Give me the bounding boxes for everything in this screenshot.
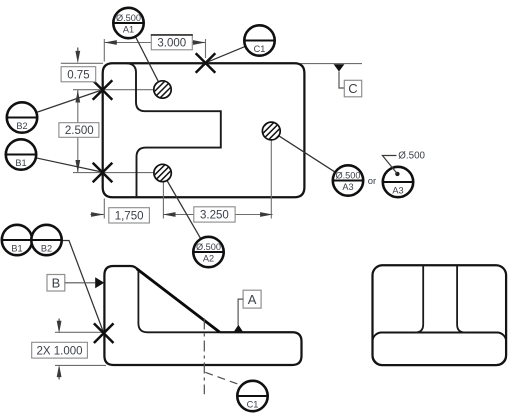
dimension box 1,750: [109, 208, 150, 223]
A3 alternate leader: [382, 156, 397, 174]
top view inner profile (step/slot): [127, 63, 221, 197]
datum A triangle: [234, 325, 243, 332]
top view outline: [103, 63, 305, 197]
svg-text:3.250: 3.250: [200, 210, 229, 222]
balloon B2 bottom: [31, 225, 61, 255]
balloon B1 bottom: [2, 225, 32, 255]
balloon A3 (with size inside): [333, 165, 363, 195]
leader C1 balloon to X3: [208, 46, 246, 62]
3.000 arrow right: [193, 40, 206, 45]
datum B stem: [65, 282, 95, 284]
svg-text:Ø.500: Ø.500: [398, 151, 425, 162]
1,750 arrow (outside, points right): [91, 214, 104, 216]
target line row 2 (through X2 and A2 area): [73, 172, 155, 174]
svg-text:2X 1.000: 2X 1.000: [36, 346, 82, 358]
front view outline: [104, 266, 301, 365]
2.500 dimension line: [77, 90, 79, 173]
balloon A3 alternate (size outside with leader): [383, 167, 413, 197]
leader B1 balloon to X2: [36, 158, 100, 172]
balloon B2 top: [7, 102, 37, 132]
svg-text:C: C: [348, 81, 357, 96]
3.000 extension line left: [103, 39, 105, 62]
side view rib left edge: [415, 266, 423, 333]
svg-text:B1: B1: [11, 243, 22, 253]
svg-text:Ø.500: Ø.500: [116, 13, 141, 23]
side view base slab: [373, 333, 507, 366]
svg-text:2.500: 2.500: [65, 125, 94, 137]
svg-text:Ø.500: Ø.500: [196, 242, 221, 252]
A3 target extension line down: [270, 141, 272, 219]
datum A box: [243, 290, 261, 308]
1,750 extension line (part left edge extended down): [103, 199, 105, 219]
balloon C1 top: [244, 25, 274, 55]
2X 1.000 extension line top: [55, 331, 102, 333]
side view rib right edge: [457, 266, 465, 333]
dimension box 3.000: [151, 35, 192, 50]
dimension box 0.75: [61, 67, 96, 82]
balloon A2: [193, 237, 223, 267]
svg-text:0.75: 0.75: [67, 70, 89, 82]
svg-text:1,750: 1,750: [115, 211, 144, 223]
datum C triangle (filled, on extension line): [334, 64, 345, 71]
2X 1.000 down arrow: [58, 319, 60, 325]
svg-text:B2: B2: [16, 121, 27, 131]
datum C extension line (top edge extended right): [300, 63, 362, 65]
datum target area A1 (hatched circle): [154, 81, 171, 98]
svg-text:B2: B2: [41, 243, 52, 253]
front view inner corner (upright to base): [138, 271, 220, 333]
inclined surface edge (thick): [137, 269, 220, 332]
datum target point X4: [94, 323, 114, 343]
3.250 arrow right: [260, 212, 273, 217]
svg-text:A1: A1: [123, 24, 134, 34]
leader A1 balloon to target area: [135, 37, 158, 82]
leader A3 target to A3 balloon: [279, 136, 336, 173]
balloon C1 bottom: [237, 381, 267, 411]
dashed leader to C1 balloon: [205, 372, 238, 384]
svg-text:B1: B1: [15, 158, 26, 168]
2X 1.000 up arrow: [58, 374, 60, 380]
leader B1/B2 pair to X4: [62, 241, 103, 332]
datum A stem: [238, 299, 243, 325]
3.000 arrow left: [104, 40, 117, 45]
balloon B1 top: [6, 139, 36, 169]
centerline of C1 target (dash-dot): [203, 319, 205, 395]
svg-text:3.000: 3.000: [157, 38, 186, 50]
0.75 top arrow (points down at top edge): [77, 48, 79, 55]
A3 alternate leader dot: [395, 172, 399, 176]
datum B box: [47, 275, 65, 292]
svg-text:Ø.500: Ø.500: [335, 171, 360, 181]
datum target point X1: [93, 80, 113, 100]
dimension box 2X 1.000: [32, 342, 88, 358]
svg-text:B: B: [52, 275, 61, 290]
dimension box 3.250: [194, 207, 235, 222]
datum B triangle: [95, 277, 104, 288]
svg-text:A: A: [248, 292, 257, 307]
datum C stem: [339, 72, 344, 89]
svg-text:A3: A3: [342, 182, 353, 192]
3.000 dimension line: [104, 42, 151, 44]
3.250 dimension line: [163, 214, 273, 216]
dimension box 2.500: [59, 123, 99, 138]
datum C box: [344, 80, 361, 97]
svg-text:C1: C1: [254, 44, 266, 54]
svg-text:A3: A3: [392, 185, 403, 195]
svg-text:A2: A2: [203, 253, 214, 263]
3.250 arrow left: [163, 212, 176, 217]
3.000 extension line right: [205, 39, 207, 58]
datum target area A2 (hatched circle): [154, 164, 171, 181]
A2 target extension line down: [162, 182, 164, 219]
svg-text:C1: C1: [247, 399, 259, 409]
datum target area A3 (hatched circle): [262, 122, 280, 140]
2X 1.000 extension line bottom: [55, 364, 106, 366]
2.500 arrow up: [75, 90, 80, 103]
datum target point X2: [93, 163, 113, 183]
datum target point X3: [196, 53, 216, 73]
leader B2 balloon to X1: [37, 91, 100, 113]
svg-text:or: or: [368, 176, 376, 187]
leader A2 target to A2 balloon: [167, 181, 201, 239]
side view outline: [373, 265, 507, 365]
extension line of top edge (left, for 0.75 dim): [61, 62, 103, 64]
balloon A1: [113, 8, 143, 38]
2.500 arrow down: [75, 160, 80, 173]
target line row 1 (through X1 and A1 area): [73, 89, 155, 91]
